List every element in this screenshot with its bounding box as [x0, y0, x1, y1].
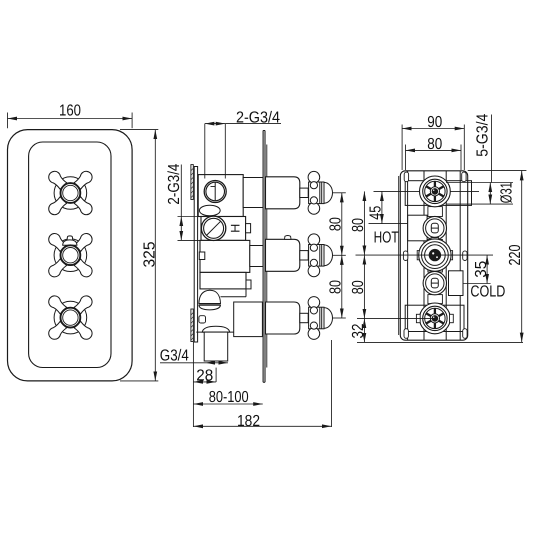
svg-text:2-G3/4: 2-G3/4 [166, 164, 183, 205]
svg-text:80: 80 [350, 218, 367, 232]
svg-text:80: 80 [327, 217, 344, 231]
svg-text:80: 80 [350, 280, 367, 294]
svg-text:160: 160 [59, 103, 81, 120]
svg-text:80: 80 [327, 280, 344, 294]
svg-text:325: 325 [141, 241, 158, 267]
svg-text:220: 220 [507, 244, 524, 265]
svg-text:HOT: HOT [374, 230, 399, 247]
svg-text:28: 28 [196, 368, 213, 385]
svg-text:5-G3/4: 5-G3/4 [475, 114, 492, 157]
svg-text:182: 182 [237, 413, 260, 430]
svg-text:Ø31: Ø31 [498, 182, 515, 203]
svg-text:COLD: COLD [470, 284, 505, 301]
svg-text:35: 35 [473, 261, 490, 278]
svg-text:80: 80 [427, 136, 442, 153]
svg-text:80-100: 80-100 [209, 389, 249, 406]
svg-text:G3/4: G3/4 [160, 348, 189, 365]
svg-text:32: 32 [350, 323, 367, 338]
svg-text:H: H [229, 224, 243, 233]
svg-text:45: 45 [368, 206, 385, 220]
svg-text:2-G3/4: 2-G3/4 [236, 110, 280, 127]
svg-text:90: 90 [427, 114, 442, 131]
